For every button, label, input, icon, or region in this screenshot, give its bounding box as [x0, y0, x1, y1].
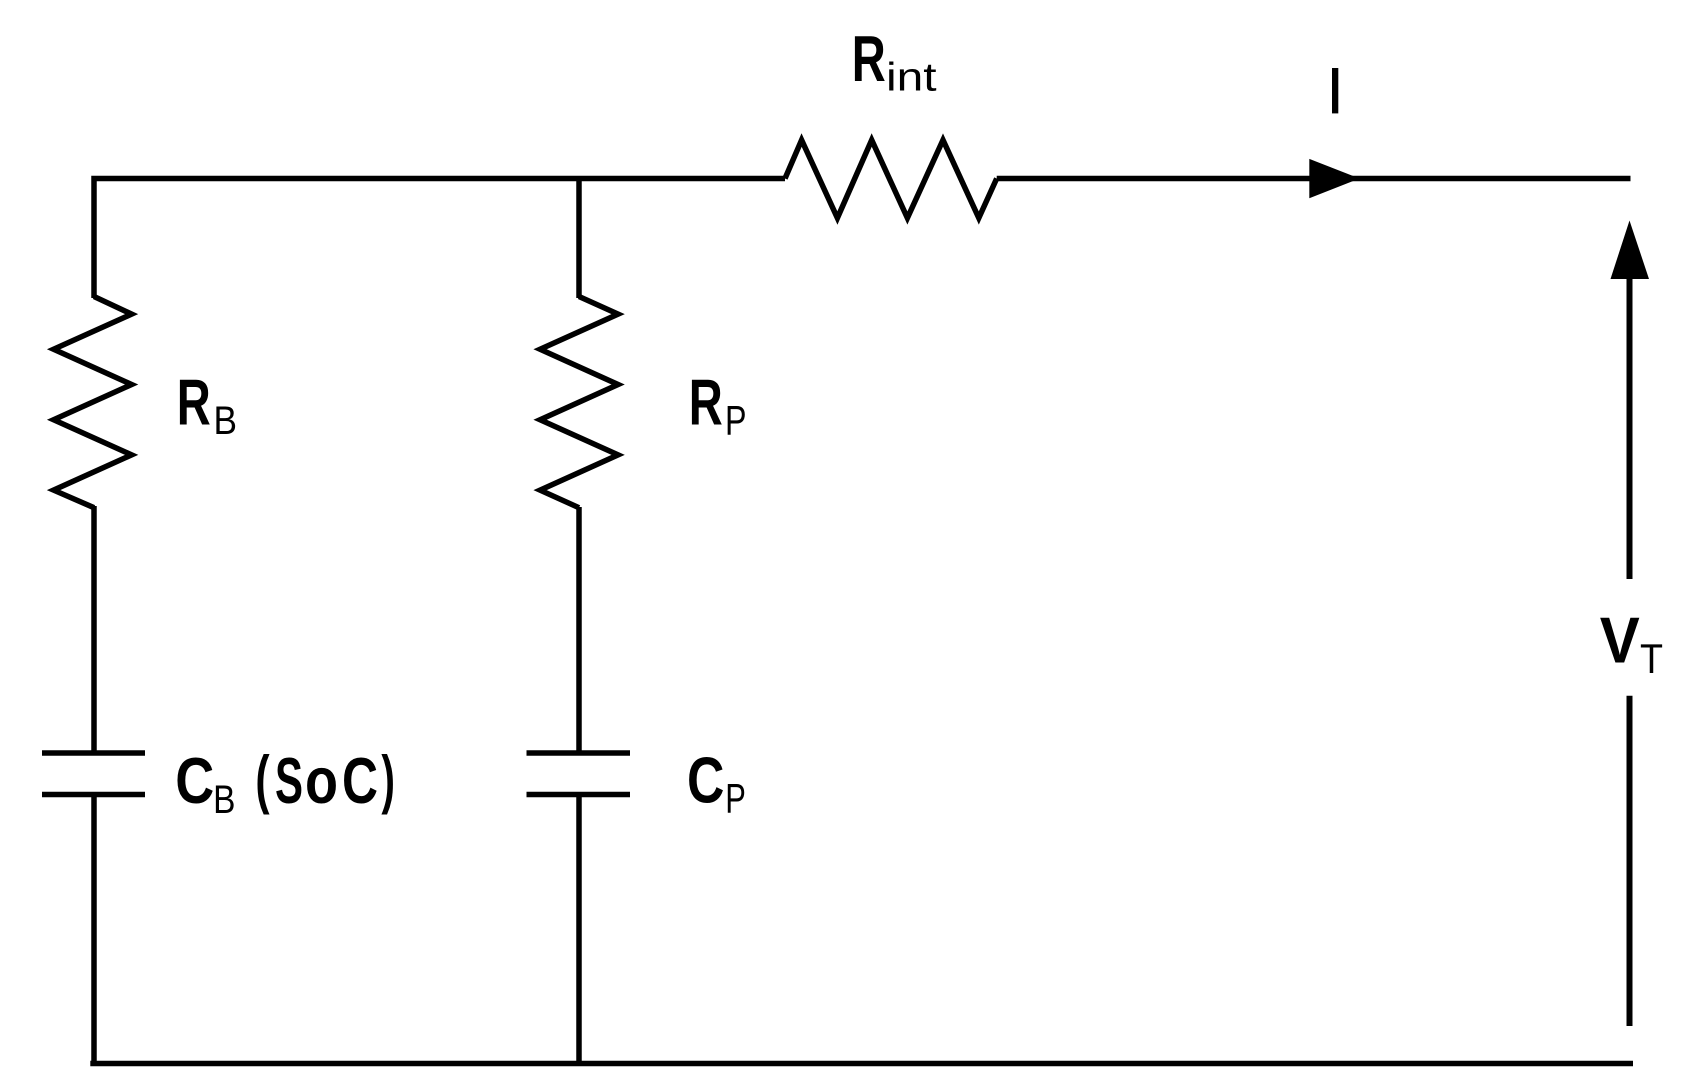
- wire: left branch between R_B and C_B: [91, 506, 97, 751]
- current arrowhead on top rail: [1309, 159, 1359, 198]
- svg-text:C: C: [175, 744, 214, 817]
- resistor R_int: [785, 140, 997, 218]
- svg-text:P: P: [725, 396, 747, 443]
- svg-text:C: C: [687, 743, 724, 816]
- V_T measurement arrowhead: [1611, 221, 1650, 280]
- wire: bottom rail: [90, 1061, 1633, 1067]
- V_T measurement arrow shaft (lower): [1627, 696, 1633, 1026]
- svg-text:T: T: [1640, 635, 1663, 682]
- resistor R_P: [540, 297, 618, 508]
- capacitor C_B top plate: [42, 750, 145, 756]
- svg-text:int: int: [886, 55, 937, 99]
- svg-text:o: o: [305, 744, 338, 817]
- wire: top-left corner (left branch up to top rail): [94, 179, 785, 299]
- wire: middle branch from top rail to R_P: [576, 179, 582, 299]
- wire: middle branch below C_P: [576, 795, 582, 1064]
- node label I: [1332, 68, 1338, 113]
- svg-text:C: C: [342, 744, 378, 817]
- capacitor C_B bottom plate: [42, 792, 145, 798]
- V_T measurement arrow shaft (upper): [1627, 262, 1633, 579]
- svg-text:): ): [381, 742, 395, 815]
- wire: left branch below C_B: [91, 795, 97, 1064]
- svg-text:B: B: [214, 399, 238, 443]
- svg-text:S: S: [275, 744, 303, 817]
- capacitor C_P top plate: [527, 750, 631, 756]
- svg-text:R: R: [689, 366, 723, 439]
- svg-text:P: P: [725, 774, 746, 821]
- svg-text:(: (: [255, 742, 269, 815]
- svg-text:R: R: [852, 22, 886, 95]
- wire: top rail right of R_int: [997, 176, 1631, 182]
- svg-text:R: R: [177, 366, 211, 439]
- resistor R_B: [54, 297, 132, 508]
- wire: middle branch between R_P and C_P: [576, 507, 582, 751]
- svg-text:V: V: [1600, 603, 1640, 676]
- capacitor C_P bottom plate: [527, 792, 631, 798]
- svg-text:B: B: [213, 778, 235, 822]
